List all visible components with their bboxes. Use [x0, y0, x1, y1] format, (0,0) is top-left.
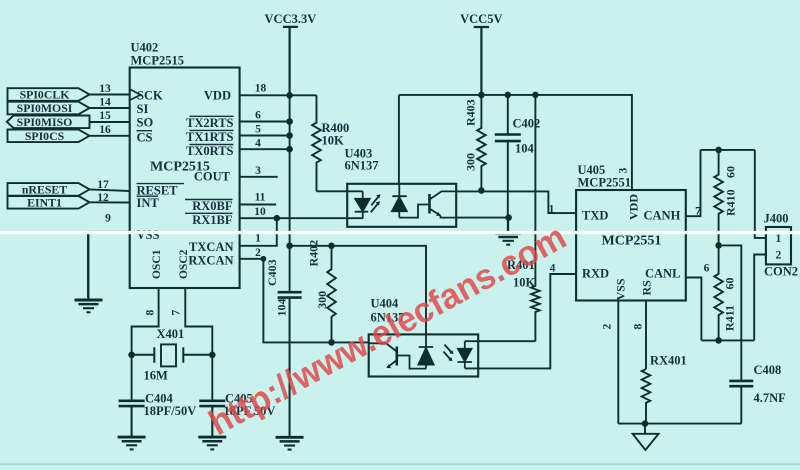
svg-text:104: 104 — [275, 299, 289, 317]
svg-text:R411: R411 — [723, 305, 737, 331]
wire C408-top — [719, 245, 742, 379]
wire RXCAN-2 — [240, 259, 369, 343]
wire INT — [90, 201, 130, 203]
svg-text:CON2: CON2 — [764, 265, 798, 279]
wire TX1RTS-5 — [240, 135, 290, 137]
wire R400-top — [290, 94, 317, 96]
wire RXD-net — [465, 274, 576, 368]
IC U404 6N137 box — [369, 334, 479, 376]
svg-text:12: 12 — [97, 192, 109, 204]
svg-text:TX1RTS: TX1RTS — [186, 130, 234, 144]
svg-text:3: 3 — [255, 165, 261, 177]
svg-text:1: 1 — [776, 233, 782, 245]
pin RESET — [137, 183, 185, 197]
resistor R411 — [714, 245, 723, 340]
svg-text:INT: INT — [137, 196, 160, 210]
svg-text:COUT: COUT — [194, 169, 231, 183]
wire U403-out — [456, 191, 576, 213]
svg-text:9: 9 — [105, 213, 111, 225]
connector J400 — [766, 227, 791, 264]
svg-text:SPI0CS: SPI0CS — [25, 129, 65, 143]
svg-text:VCC3.3V: VCC3.3V — [265, 12, 317, 26]
IC U402 MCP2515 box — [130, 68, 240, 289]
svg-text:16M: 16M — [144, 369, 169, 383]
svg-text:TX0RTS: TX0RTS — [186, 144, 234, 158]
ground G-C405 — [198, 406, 226, 449]
svg-text:13: 13 — [99, 83, 111, 95]
svg-text:SPI0MISO: SPI0MISO — [17, 115, 73, 129]
wire CANH-7 — [686, 150, 701, 216]
ground G-VSS — [75, 232, 103, 312]
wire OSC1-8 — [132, 288, 159, 400]
wire V33-distrib — [290, 246, 426, 335]
pin RX0BF — [185, 199, 233, 213]
svg-text:10K: 10K — [322, 133, 345, 147]
wire term-bot — [701, 339, 754, 341]
svg-text:2: 2 — [255, 247, 261, 259]
svg-text:CANH: CANH — [644, 209, 681, 223]
svg-text:3: 3 — [618, 168, 630, 174]
capacitor C408 — [729, 380, 753, 424]
node R402-top — [328, 243, 335, 250]
svg-text:1: 1 — [549, 204, 555, 216]
svg-text:60: 60 — [724, 166, 738, 178]
svg-text:300: 300 — [315, 291, 329, 309]
wire OSC2-7 — [185, 288, 212, 400]
wire VDD-18 — [240, 94, 290, 96]
node rail-18 — [286, 92, 293, 99]
svg-text:6: 6 — [704, 263, 710, 275]
svg-text:EINT1: EINT1 — [27, 196, 62, 210]
svg-text:8: 8 — [633, 324, 645, 330]
svg-text:SO: SO — [137, 115, 154, 129]
wire TX2RTS-6 — [240, 121, 290, 123]
pin CS — [137, 130, 153, 144]
svg-text:VSS: VSS — [137, 228, 160, 242]
wire RS-8 — [645, 301, 647, 370]
svg-text:8: 8 — [145, 310, 157, 316]
power VCC5V — [460, 12, 502, 95]
svg-text:VDD: VDD — [627, 194, 641, 220]
diode U403 photodiode — [392, 184, 407, 218]
svg-text:X401: X401 — [157, 327, 185, 341]
svg-text:60: 60 — [723, 278, 737, 290]
svg-text:C403: C403 — [265, 259, 279, 286]
node rail-5 — [286, 132, 293, 139]
svg-text:MCP2551: MCP2551 — [578, 176, 631, 190]
svg-text:nRESET: nRESET — [22, 183, 67, 197]
capacitor C402 — [495, 95, 521, 218]
wire J400-pin1 — [755, 150, 766, 238]
svg-text:MCP2551: MCP2551 — [602, 234, 662, 249]
flag SPI0MOSI — [8, 101, 90, 115]
svg-text:4: 4 — [255, 137, 261, 149]
node rail-4 — [286, 146, 293, 153]
svg-text:U402: U402 — [131, 41, 159, 55]
wire SO — [89, 121, 130, 123]
node R411-bot — [715, 337, 722, 344]
svg-text:OSC1: OSC1 — [151, 249, 163, 279]
flag SPI0CLK — [8, 88, 90, 102]
node rail-246 — [286, 243, 293, 250]
svg-text:SI: SI — [137, 102, 149, 116]
wire VCC3.3-rail — [289, 95, 291, 292]
wire CANL-6 — [686, 278, 702, 341]
node V5-R401 — [532, 92, 539, 99]
transistor U403 Q — [399, 191, 456, 217]
svg-text:TXD: TXD — [582, 209, 608, 223]
svg-text:104: 104 — [515, 142, 535, 156]
svg-text:4: 4 — [550, 263, 556, 275]
svg-text:6: 6 — [255, 110, 261, 122]
diode U403 LED — [355, 191, 370, 218]
svg-text:10: 10 — [254, 206, 266, 218]
svg-text:4.7NF: 4.7NF — [754, 391, 787, 405]
IC U405 MCP2551 box — [576, 190, 686, 301]
wire CS — [90, 135, 130, 137]
svg-text:VSS: VSS — [614, 278, 628, 300]
wire COUT-3 — [240, 176, 278, 178]
svg-text:SPI0CLK: SPI0CLK — [20, 88, 71, 102]
wire SCK — [90, 94, 130, 96]
wire gnd-bus — [618, 423, 741, 425]
flag SPI0MISO — [7, 115, 90, 129]
wire U403-vdd-drop — [398, 95, 400, 184]
flag EINT1 — [8, 196, 90, 210]
resistor R403 — [477, 95, 486, 191]
svg-text:VCC5V: VCC5V — [460, 12, 502, 26]
svg-text:CS: CS — [137, 130, 153, 144]
svg-text:RXCAN: RXCAN — [188, 254, 233, 268]
flag nRESET — [8, 183, 90, 197]
resistor R400 — [312, 95, 321, 191]
svg-text:18PF/50V: 18PF/50V — [144, 404, 197, 418]
wire V5-line — [399, 95, 632, 190]
U403 LED arrows — [371, 194, 381, 212]
power VCC3.3V — [265, 12, 317, 95]
wire R400-bot — [317, 190, 363, 192]
crystal X401 — [132, 344, 213, 366]
ground triangle — [633, 424, 659, 450]
pin TX0RTS — [186, 144, 234, 158]
svg-text:VDD: VDD — [204, 89, 231, 103]
svg-text:2: 2 — [776, 250, 782, 262]
resistor RX401 — [642, 369, 651, 424]
node R410-R411 — [715, 242, 722, 249]
svg-text:11: 11 — [255, 192, 266, 204]
IC U403 6N137 box — [347, 184, 456, 227]
svg-text:TX2RTS: TX2RTS — [186, 116, 234, 130]
svg-text:RX401: RX401 — [650, 354, 687, 368]
svg-text:R403: R403 — [464, 99, 478, 126]
svg-text:R410: R410 — [724, 189, 738, 216]
pin INT — [137, 196, 160, 210]
svg-text:2: 2 — [602, 324, 614, 330]
svg-text:J400: J400 — [764, 212, 789, 226]
svg-text:5: 5 — [255, 124, 261, 136]
svg-text:300: 300 — [464, 153, 478, 171]
wire R401-to-LED — [465, 340, 536, 342]
wire SI — [90, 107, 130, 109]
wire TX0RTS-4 — [240, 148, 290, 150]
svg-text:18: 18 — [255, 83, 267, 95]
svg-text:14: 14 — [99, 97, 111, 109]
wire U403-gnd — [456, 217, 508, 219]
svg-text:1: 1 — [255, 233, 261, 245]
wire J400-pin2 — [754, 255, 766, 341]
resistor R402 — [327, 246, 336, 343]
U404 LED arrows — [444, 345, 454, 362]
svg-text:C408: C408 — [754, 363, 782, 377]
node RX1BF-junction — [274, 215, 281, 222]
scan stripe — [0, 231, 800, 234]
node V5-C402 — [505, 92, 512, 99]
svg-text:CANL: CANL — [645, 267, 680, 281]
node rail-6 — [286, 118, 293, 125]
node RX401-gnd — [642, 420, 649, 427]
svg-text:SPI0MOSI: SPI0MOSI — [17, 101, 73, 115]
flag SPI0CS — [8, 129, 90, 143]
svg-text:R402: R402 — [307, 240, 321, 267]
wire RX1BF-10 — [240, 217, 363, 219]
wire RX0BF-11 — [240, 204, 277, 206]
node R402-bot — [328, 339, 335, 346]
pin TX2RTS — [186, 116, 234, 130]
wire TXCAN-1 — [240, 218, 277, 246]
ground G-C403 — [276, 298, 304, 450]
svg-text:RXD: RXD — [582, 267, 609, 281]
resistor R410 — [714, 150, 723, 246]
svg-text:RS: RS — [640, 280, 654, 296]
pin RX1BF — [185, 213, 233, 227]
svg-text:RX0BF: RX0BF — [192, 199, 233, 213]
wire C402-gnd-stem — [507, 218, 509, 233]
svg-text:15: 15 — [99, 110, 111, 122]
node R403-bot — [478, 187, 485, 194]
ground G-C404 — [118, 406, 146, 449]
pin SCK — [131, 89, 163, 103]
node V5-R403 — [478, 92, 485, 99]
transistor U404 Q — [369, 343, 426, 368]
bottom scan edge — [0, 463, 800, 465]
svg-text:RX1BF: RX1BF — [192, 213, 233, 227]
capacitor C404 — [119, 400, 145, 438]
svg-text:7: 7 — [171, 310, 183, 316]
node X401-right — [209, 352, 216, 359]
node X401-left — [128, 352, 135, 359]
wire term-top — [701, 149, 755, 151]
wire VSS-9 — [88, 232, 130, 298]
capacitor C403 — [278, 292, 302, 437]
pin TX1RTS — [186, 130, 234, 144]
diode U404 LED — [458, 341, 472, 368]
svg-text:16: 16 — [99, 124, 111, 136]
node U403-gnd-dot — [505, 214, 512, 221]
ground G-U403 — [495, 218, 521, 245]
svg-text:TXCAN: TXCAN — [189, 240, 233, 254]
svg-text:17: 17 — [97, 179, 109, 191]
diode U404 photodiode — [418, 334, 433, 368]
wire RESET — [90, 189, 130, 191]
resistor R401 — [531, 95, 540, 341]
node R410-top — [715, 147, 722, 154]
svg-text:MCP2515: MCP2515 — [131, 54, 184, 68]
node RXCAN-corner — [261, 256, 267, 262]
wire VSS-2 — [617, 301, 619, 424]
svg-text:6N137: 6N137 — [345, 159, 379, 173]
capacitor C405 — [199, 400, 225, 438]
